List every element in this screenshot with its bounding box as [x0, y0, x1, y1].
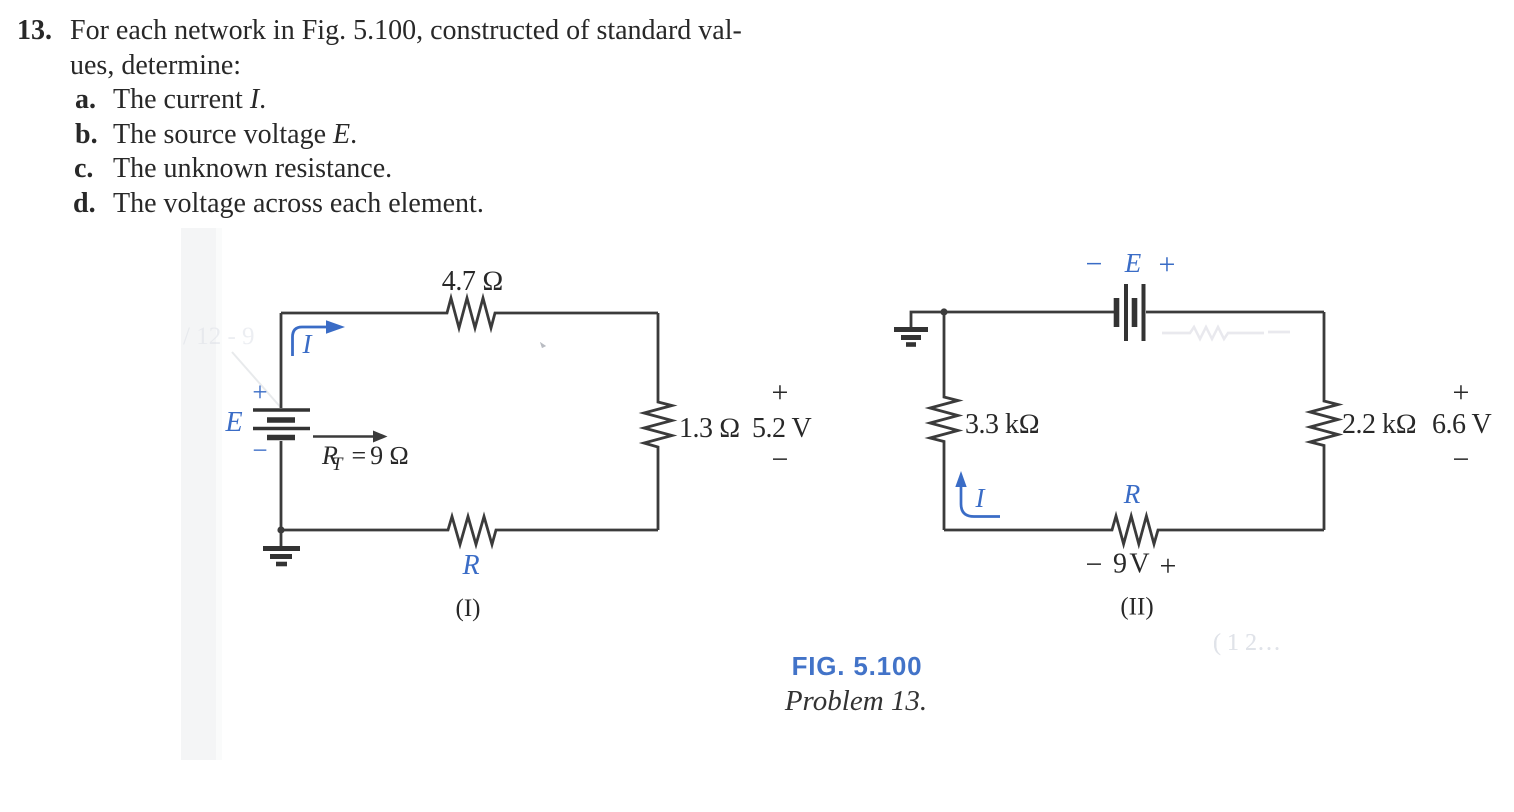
svg-text:9: 9	[1113, 549, 1127, 580]
svg-text:4.7 Ω: 4.7 Ω	[442, 266, 504, 297]
svg-text:−: −	[1086, 248, 1103, 281]
svg-text:Problem 13.: Problem 13.	[784, 685, 927, 717]
svg-text:E: E	[224, 407, 242, 438]
svg-text:3.3 kΩ: 3.3 kΩ	[965, 409, 1040, 440]
svg-text:( 1 2…: ( 1 2…	[1213, 630, 1281, 656]
svg-text:−: −	[772, 443, 789, 476]
svg-text:I: I	[302, 329, 314, 359]
svg-text:I: I	[975, 483, 987, 513]
svg-text:RT=9Ω: RT=9Ω	[321, 441, 409, 475]
svg-text:E: E	[1124, 248, 1142, 278]
svg-text:(I): (I)	[456, 595, 481, 622]
svg-text:−: −	[1453, 443, 1470, 476]
svg-text:2.2 kΩ: 2.2 kΩ	[1342, 409, 1417, 440]
svg-text:(II): (II)	[1120, 594, 1153, 621]
svg-text:−: −	[1086, 548, 1103, 581]
svg-text:6.6 V: 6.6 V	[1432, 409, 1491, 440]
svg-text:+: +	[1453, 376, 1470, 409]
svg-text:1.3 Ω: 1.3 Ω	[679, 413, 740, 444]
svg-text:V: V	[1129, 549, 1149, 580]
svg-text:+: +	[252, 377, 267, 407]
svg-text:+: +	[772, 376, 789, 409]
svg-text:+: +	[1160, 550, 1177, 583]
svg-text:−: −	[252, 435, 267, 465]
svg-text:R: R	[461, 550, 479, 581]
svg-text:R: R	[1123, 479, 1141, 509]
svg-text:+: +	[1159, 248, 1176, 281]
svg-text:5.2 V: 5.2 V	[752, 413, 811, 444]
svg-text:FIG. 5.100: FIG. 5.100	[792, 651, 923, 681]
svg-text:/ 12 - 9: / 12 - 9	[183, 323, 255, 350]
